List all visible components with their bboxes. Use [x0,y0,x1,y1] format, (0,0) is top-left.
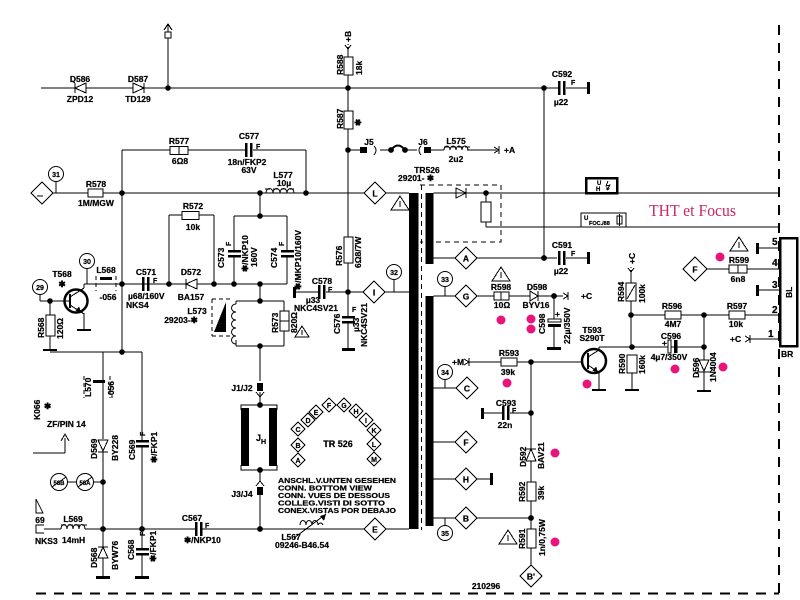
svg-text:C571: C571 [136,267,157,277]
svg-text:6Ω8: 6Ω8 [172,156,189,166]
svg-text:R572: R572 [183,201,204,211]
svg-text:NKS3: NKS3 [35,536,58,546]
svg-text:✱: ✱ [353,118,363,126]
svg-text:NKS4: NKS4 [126,300,149,310]
svg-text:22n: 22n [498,420,513,430]
svg-text:33: 33 [441,277,449,284]
svg-text:G: G [341,403,347,410]
svg-text:29203-✱: 29203-✱ [164,315,198,325]
svg-text:M: M [371,457,377,464]
svg-text:B: B [295,443,300,450]
svg-text:4: 4 [772,258,778,269]
svg-text:L: L [372,442,377,449]
svg-text:R588: R588 [335,54,345,75]
svg-text:R590: R590 [617,353,627,374]
svg-text:H: H [353,409,358,416]
svg-text:C598: C598 [537,313,547,334]
svg-text:F: F [153,278,158,285]
svg-text:TD129: TD129 [125,94,151,104]
svg-text:F: F [571,251,576,258]
svg-text:4M7: 4M7 [665,319,682,329]
svg-text:F: F [352,307,357,314]
svg-text:✱/NKP10: ✱/NKP10 [184,535,221,545]
svg-text:C: C [464,384,470,394]
svg-text:+A: +A [504,145,515,155]
svg-text:5: 5 [772,237,778,248]
svg-text:10µ: 10µ [277,178,291,188]
svg-text:F: F [226,241,233,246]
svg-text:B: B [463,514,469,524]
svg-text:-056: -056 [106,381,116,398]
svg-text:K066: K066 [32,399,42,420]
svg-text:14mH: 14mH [62,535,85,545]
svg-text:+C: +C [581,291,592,301]
svg-text:C574: C574 [269,247,279,268]
svg-text:35: 35 [441,531,449,538]
svg-text:L: L [372,189,377,199]
svg-text:E: E [314,410,319,417]
svg-text:+M: +M [452,357,464,367]
svg-text:R577: R577 [169,136,190,146]
svg-text:BAV21: BAV21 [536,442,546,469]
svg-text:S290T: S290T [579,333,605,343]
svg-text:160V: 160V [249,247,259,267]
svg-text:T568: T568 [52,269,72,279]
svg-text:D592: D592 [518,446,528,467]
svg-text:R568: R568 [36,317,46,338]
svg-text:C: C [295,427,300,434]
svg-text:C569: C569 [127,439,137,460]
svg-text:C591: C591 [552,240,573,250]
svg-text:4µ7/350V: 4µ7/350V [651,352,688,362]
svg-text:R593: R593 [499,348,520,358]
svg-text:G: G [463,292,470,302]
svg-text:F: F [327,403,332,410]
svg-text:BR: BR [781,349,793,359]
svg-text:30: 30 [83,259,91,266]
svg-text:10k: 10k [729,319,743,329]
svg-text:C573: C573 [216,247,226,268]
svg-text:2u2: 2u2 [449,154,464,164]
svg-text:K: K [371,428,376,435]
svg-text:R576: R576 [334,245,344,266]
svg-text:H: H [596,187,600,193]
svg-text:R573: R573 [270,312,280,333]
svg-text:✱: ✱ [58,279,66,289]
svg-text:29201- ✱: 29201- ✱ [398,173,435,183]
svg-text:1: 1 [768,329,774,340]
svg-text:C577: C577 [239,131,260,141]
svg-text:C593: C593 [496,398,517,408]
svg-text:J5: J5 [364,137,374,147]
svg-text:I: I [373,288,375,298]
svg-text:D587: D587 [128,74,149,84]
svg-text:A: A [295,458,300,465]
svg-text:10k: 10k [186,222,200,232]
svg-text:1N4004: 1N4004 [708,352,718,382]
svg-text:TR 526: TR 526 [323,439,353,449]
svg-text:C576: C576 [332,313,342,334]
svg-text:39k: 39k [536,486,546,500]
svg-text:NKC4SV21: NKC4SV21 [359,303,369,347]
svg-text:J3/J4: J3/J4 [231,489,253,499]
svg-text:3: 3 [772,280,778,291]
svg-text:H: H [261,439,266,446]
svg-text:10Ω: 10Ω [494,300,510,310]
svg-text:✱/FKP1: ✱/FKP1 [149,432,159,463]
svg-text:C578: C578 [312,276,333,286]
svg-text:BYV16: BYV16 [523,300,550,310]
svg-text:6Ω8/7W: 6Ω8/7W [353,236,363,268]
svg-text:+C: +C [627,253,637,264]
svg-text:63V: 63V [241,165,256,175]
svg-text:L568: L568 [96,265,116,275]
svg-text:D: D [305,418,310,425]
svg-text:F: F [692,265,697,275]
svg-text:BYW76: BYW76 [110,540,120,570]
svg-text:FOC./88: FOC./88 [589,221,610,227]
svg-text:R599: R599 [729,255,750,265]
svg-text:820Ω: 820Ω [289,312,299,333]
svg-text:C567: C567 [182,513,203,523]
svg-text:R591: R591 [517,528,527,549]
svg-text:J6: J6 [418,137,428,147]
svg-text:THT et Focus: THT et Focus [649,201,736,220]
svg-text:B': B' [527,572,535,582]
svg-text:D586: D586 [70,74,91,84]
svg-text:NKC4SV21: NKC4SV21 [294,303,338,313]
svg-text:18k: 18k [354,61,364,75]
svg-text:H: H [463,475,469,485]
svg-text:F: F [463,438,468,448]
svg-text:210296: 210296 [472,581,501,591]
svg-text:C568: C568 [126,539,136,560]
svg-text:ZF/PIN 14: ZF/PIN 14 [47,419,86,429]
svg-text:F: F [140,431,147,436]
svg-text:R596: R596 [662,301,683,311]
svg-text:+C: +C [730,334,741,344]
svg-text:100k: 100k [637,284,647,303]
svg-text:69: 69 [35,515,45,525]
svg-text:D569: D569 [89,438,99,459]
svg-text:U: U [584,216,588,222]
svg-text:BA157: BA157 [178,292,205,302]
svg-text:F: F [279,241,286,246]
svg-text:✱: ✱ [44,401,52,411]
svg-text:+B: +B [343,31,353,42]
svg-text:µ22: µ22 [554,97,569,107]
svg-text:✱/FKP1: ✱/FKP1 [148,531,158,562]
svg-text:160k: 160k [637,355,647,374]
svg-text:32: 32 [390,270,398,277]
svg-text:✱/MKP10/160V: ✱/MKP10/160V [293,230,303,290]
svg-text:D596: D596 [691,357,701,378]
svg-text:F: F [328,287,333,294]
svg-text:+: + [662,338,667,348]
svg-text:+: + [555,309,560,319]
svg-text:µ22: µ22 [554,266,569,276]
svg-text:22µ/350V: 22µ/350V [562,307,572,344]
svg-text:R594: R594 [616,281,626,302]
svg-text:39k: 39k [501,367,515,377]
svg-text:E: E [372,525,378,535]
svg-text:6n8: 6n8 [731,274,746,284]
svg-text:L575: L575 [446,136,466,146]
svg-text:I: I [365,418,367,425]
svg-text:ZPD12: ZPD12 [67,94,94,104]
svg-text:2: 2 [772,305,778,316]
svg-text:R587: R587 [335,108,345,129]
svg-text:R578: R578 [86,179,107,189]
svg-text:R592: R592 [517,481,527,502]
svg-text:L569: L569 [63,514,83,524]
svg-text:CONEX.VISTAS POR DEBAJO: CONEX.VISTAS POR DEBAJO [278,506,396,515]
svg-text:09246-B46.54: 09246-B46.54 [275,540,329,550]
svg-text:D598: D598 [527,282,548,292]
svg-text:C592: C592 [552,69,573,79]
svg-text:1M/MGW: 1M/MGW [78,198,115,208]
svg-text:BY228: BY228 [110,435,120,461]
svg-text:31: 31 [52,172,60,179]
svg-text:R598: R598 [491,282,512,292]
svg-text:29: 29 [36,285,44,292]
svg-text:D572: D572 [181,267,202,277]
svg-text:F: F [512,408,517,415]
svg-text:F: F [571,80,576,87]
svg-text:BL: BL [784,287,794,298]
svg-text:R597: R597 [727,301,748,311]
svg-text:120Ω: 120Ω [55,318,65,339]
svg-text:F: F [140,531,147,536]
svg-text:-056: -056 [99,292,116,302]
svg-text:A: A [463,254,469,264]
svg-text:1n/0,75W: 1n/0,75W [537,518,547,556]
svg-text:J1/J2: J1/J2 [231,383,253,393]
svg-text:34: 34 [441,370,449,377]
svg-text:L570: L570 [83,377,93,397]
svg-text:D568: D568 [89,547,99,568]
